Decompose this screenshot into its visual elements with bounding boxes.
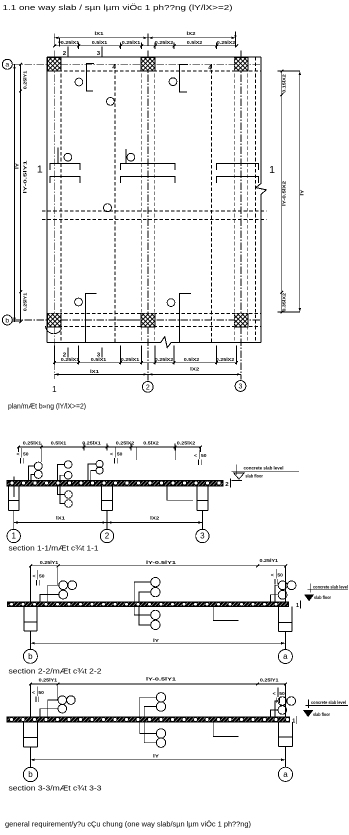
svg-text:lX2: lX2 bbox=[190, 367, 200, 372]
svg-text:lY-0.5lX2: lY-0.5lX2 bbox=[282, 180, 287, 206]
svg-text:0.25lX1: 0.25lX1 bbox=[121, 357, 140, 362]
plan bottom segment dim line bbox=[55, 362, 238, 364]
svg-text:<: < bbox=[110, 451, 113, 456]
svg-text:0.25lX1: 0.25lX1 bbox=[61, 40, 80, 45]
svg-text:general requirement/y?u cÇu ch: general requirement/y?u cÇu chung (one w… bbox=[5, 820, 251, 829]
plan top segment dim line bbox=[55, 45, 238, 47]
svg-text:50: 50 bbox=[277, 572, 283, 577]
svg-text:0.5lX2: 0.5lX2 bbox=[184, 357, 200, 362]
sec11 level note line bbox=[231, 470, 299, 472]
sec33 level note line bbox=[305, 705, 348, 707]
svg-text:lY: lY bbox=[153, 753, 159, 758]
svg-text:a: a bbox=[5, 62, 9, 69]
sec22 slab band bbox=[7, 602, 288, 607]
svg-text:0.25lY1: 0.25lY1 bbox=[40, 560, 59, 565]
column 1a hatched bbox=[48, 58, 62, 72]
svg-text:2: 2 bbox=[105, 532, 110, 541]
plan slab bottom edge with break bbox=[47, 337, 261, 348]
sec11 bar through support 1 bbox=[13, 477, 15, 498]
grid bubble 3 bbox=[235, 381, 246, 392]
svg-text:b: b bbox=[28, 770, 33, 779]
svg-text:2: 2 bbox=[225, 482, 228, 488]
sec33 leader bracket right bbox=[213, 722, 238, 736]
column 2b hatched bbox=[141, 313, 155, 327]
svg-text:0.25lX2: 0.25lX2 bbox=[216, 357, 235, 362]
svg-text:2: 2 bbox=[146, 384, 150, 391]
plan left segment dim line bbox=[20, 64, 22, 321]
svg-text:50: 50 bbox=[38, 690, 44, 695]
svg-text:slab floor: slab floor bbox=[314, 595, 331, 600]
span1 top bar with hooks bbox=[86, 63, 94, 91]
span2 top bar callout circle bbox=[169, 78, 177, 86]
sec22 main bars in slab bbox=[10, 602, 14, 606]
sec22 callout circles right support bbox=[278, 581, 287, 590]
svg-text:<: < bbox=[33, 573, 36, 578]
svg-text:0.25lX2: 0.25lX2 bbox=[155, 357, 174, 362]
column 1b hatched bbox=[48, 313, 62, 327]
column 3a hatched bbox=[234, 58, 248, 72]
svg-text:0.25lX1: 0.25lX1 bbox=[23, 441, 42, 446]
span2 bottom bar with hook bbox=[180, 293, 191, 342]
sec33 midspan callouts below bbox=[156, 729, 165, 738]
hidden line near right break bbox=[254, 57, 256, 342]
axis circle b bbox=[2, 315, 12, 325]
svg-text:lX1: lX1 bbox=[56, 516, 66, 521]
sec11 dim boundary ticks bbox=[40, 444, 42, 451]
sec11 callout circles support2 bbox=[96, 460, 103, 467]
top support bars over grid 1 bbox=[50, 164, 80, 171]
sec22 leader bracket right bbox=[213, 607, 238, 621]
svg-text:0.25lX1: 0.25lX1 bbox=[122, 40, 141, 45]
svg-text:lX2: lX2 bbox=[150, 516, 160, 521]
svg-text:1: 1 bbox=[37, 164, 43, 176]
svg-text:lY: lY bbox=[15, 163, 20, 169]
sec support sec33 b bbox=[23, 722, 25, 747]
svg-text:50: 50 bbox=[279, 691, 285, 696]
svg-text:1.1 one way slab / sµn lµm viÖ: 1.1 one way slab / sµn lµm viÖc 1 ph??ng… bbox=[3, 3, 234, 12]
sec11 callout circles near grid1 bbox=[34, 462, 42, 470]
svg-text:4: 4 bbox=[208, 65, 212, 72]
span1 bottom bar callout circle bbox=[75, 298, 83, 306]
sec33 callout circles left support bbox=[58, 696, 67, 705]
axis a centerline bbox=[12, 63, 261, 65]
svg-text:lX1: lX1 bbox=[90, 369, 100, 374]
sec33 main bars in slab bbox=[10, 718, 14, 722]
span1 bottom bar with hook bbox=[86, 293, 97, 342]
svg-text:<: < bbox=[17, 451, 20, 456]
beam 1 inner face hidden line bbox=[60, 57, 62, 342]
svg-text:1: 1 bbox=[11, 532, 16, 541]
svg-text:plan/mÆt b»ng (lY/lX>=2): plan/mÆt b»ng (lY/lX>=2) bbox=[8, 401, 86, 410]
svg-text:b: b bbox=[5, 317, 9, 324]
sec11 support grid 2 bbox=[101, 486, 103, 511]
sec22 top dim line bbox=[31, 565, 286, 567]
sec33 callout circles right support bbox=[278, 697, 287, 706]
svg-text:0.25lY1: 0.25lY1 bbox=[39, 677, 58, 682]
distribution bar span1 dashed bbox=[114, 64, 116, 342]
beam a inner face hidden line bbox=[47, 70, 261, 72]
svg-text:3: 3 bbox=[239, 384, 243, 391]
svg-text:<: < bbox=[194, 453, 197, 458]
sec22 callout circles left support bbox=[59, 581, 68, 590]
svg-text:a: a bbox=[283, 770, 288, 779]
svg-text:1: 1 bbox=[52, 385, 57, 394]
svg-text:3: 3 bbox=[200, 532, 205, 541]
sec11 extension lines to bar cuts bbox=[40, 447, 42, 462]
svg-text:slab floor: slab floor bbox=[245, 474, 263, 479]
sec11 support grid 1 bbox=[7, 486, 9, 511]
support bar callout circle grid2 bbox=[127, 153, 135, 161]
sec support sec22 b bbox=[23, 607, 25, 632]
svg-text:0.25lX2: 0.25lX2 bbox=[217, 40, 236, 45]
bar bend arc at column 1b bbox=[46, 326, 62, 334]
svg-text:0.25lX2: 0.25lX2 bbox=[116, 441, 135, 446]
plan bottom segment dim extension lines bbox=[78, 346, 80, 365]
span2 top bar with hooks bbox=[179, 64, 188, 92]
svg-text:50: 50 bbox=[201, 453, 207, 458]
svg-text:lY-0.5lY1: lY-0.5lY1 bbox=[22, 160, 27, 194]
svg-text:b: b bbox=[28, 652, 33, 661]
sec22 level note line bbox=[308, 589, 348, 591]
sec33 level triangle bbox=[304, 711, 313, 717]
svg-text:<: < bbox=[271, 572, 274, 577]
sec33 midspan callouts above bbox=[156, 693, 165, 702]
sec11 leader bracket span2 bbox=[167, 486, 193, 500]
svg-text:section 3-3/mÆt c¾t 3-3: section 3-3/mÆt c¾t 3-3 bbox=[9, 783, 102, 792]
svg-text:0.15lX2: 0.15lX2 bbox=[282, 74, 287, 93]
sec22 bottom dim line lY bbox=[30, 642, 285, 644]
svg-text:lY-0.5lY1: lY-0.5lY1 bbox=[146, 676, 177, 681]
plan slab right edge with break bbox=[256, 57, 266, 342]
distribution bar solid segment near beam b bbox=[117, 319, 135, 321]
svg-text:concrete slab level: concrete slab level bbox=[311, 700, 346, 705]
sec22 level triangle bbox=[305, 595, 314, 601]
plan slab outline top edge bbox=[47, 56, 261, 58]
svg-text:concrete slab level: concrete slab level bbox=[244, 466, 284, 471]
top support bars over grid 3 bbox=[217, 164, 259, 171]
svg-text:slab floor: slab floor bbox=[313, 712, 330, 717]
sec11 support grid 3 bbox=[196, 486, 198, 511]
sec33 slab band bbox=[7, 717, 290, 722]
top support bars over grid 2 bbox=[120, 164, 174, 171]
support bar callout circle grid1 bbox=[64, 153, 72, 161]
svg-text:lY: lY bbox=[153, 638, 159, 643]
svg-text:concrete slab level: concrete slab level bbox=[313, 584, 348, 589]
plan bottom overall dim line bbox=[54, 373, 241, 375]
svg-text:lY: lY bbox=[300, 190, 305, 196]
sec11 grid bubble 1 bbox=[7, 529, 20, 542]
beam 3 faces hidden lines bbox=[233, 57, 235, 342]
distribution bar callout circle span1 bbox=[107, 98, 115, 106]
svg-text:0.5lX1: 0.5lX1 bbox=[92, 40, 108, 45]
distribution bar span2 dashed bbox=[211, 64, 213, 342]
grid bubble 2 bbox=[142, 382, 153, 393]
grid axis 3 centerline bbox=[240, 51, 242, 380]
sec support sec22 a bbox=[278, 607, 280, 632]
sec axis bubble sec22 b bbox=[23, 649, 37, 663]
svg-text:lX2: lX2 bbox=[187, 31, 197, 36]
svg-text:50: 50 bbox=[117, 451, 123, 456]
plan left overall dim line lY bbox=[14, 64, 16, 321]
svg-text:50: 50 bbox=[23, 451, 29, 456]
plan top overall dim extension lines bbox=[53, 34, 55, 46]
sec22 midspan callouts below bbox=[151, 610, 160, 619]
sec11 slab band bbox=[7, 480, 223, 486]
svg-text:4: 4 bbox=[112, 64, 116, 71]
plan slab outline left edge bbox=[46, 57, 48, 342]
sec11 level triangle bbox=[234, 473, 245, 479]
sec22 midspan callouts above bbox=[151, 577, 160, 586]
svg-text:0.25lX2: 0.25lX2 bbox=[177, 441, 196, 446]
sec33 bottom dim line lY bbox=[30, 759, 285, 761]
sec11 grid bubble 2 bbox=[100, 529, 113, 542]
svg-text:0.25lY1: 0.25lY1 bbox=[260, 678, 279, 683]
svg-text:a: a bbox=[283, 652, 288, 661]
svg-text:0.5lX1: 0.5lX1 bbox=[91, 357, 107, 362]
svg-text:1: 1 bbox=[269, 164, 275, 176]
svg-text:50: 50 bbox=[39, 573, 45, 578]
callout circle on section line span1 bbox=[104, 204, 112, 212]
axis b centerline bbox=[12, 319, 261, 321]
sec11 callout circles midspan1 below bbox=[65, 491, 73, 499]
svg-text:lY-0.5lY1: lY-0.5lY1 bbox=[146, 560, 177, 565]
svg-text:0.25lX2: 0.25lX2 bbox=[155, 40, 174, 45]
svg-text:0.25lX1: 0.25lX1 bbox=[61, 357, 80, 362]
svg-text:lX1: lX1 bbox=[95, 31, 105, 36]
sec11 grid bubble 3 bbox=[196, 529, 209, 542]
plan right segment dim line bbox=[281, 71, 283, 312]
span1 top bar callout circle bbox=[75, 78, 83, 86]
beam 2 faces hidden lines bbox=[140, 57, 142, 342]
column 3b hatched bbox=[234, 313, 248, 327]
svg-text:0.5lX2: 0.5lX2 bbox=[187, 40, 203, 45]
svg-text:<: < bbox=[32, 690, 35, 695]
span2 bottom bar callout circle bbox=[167, 299, 175, 307]
svg-text:0.25lY1: 0.25lY1 bbox=[260, 558, 279, 563]
svg-text:2: 2 bbox=[63, 51, 66, 57]
sec axis bubble sec33 b bbox=[23, 767, 37, 781]
grid axis 1 centerline bbox=[53, 51, 55, 380]
svg-text:0.25lY1: 0.25lY1 bbox=[22, 70, 27, 89]
svg-text:0.35lX2: 0.35lX2 bbox=[282, 293, 287, 312]
beam b faces hidden lines bbox=[47, 312, 261, 314]
grid axis 2 centerline bbox=[147, 51, 149, 381]
svg-text:section 1-1/mÆt c¾t 1-1: section 1-1/mÆt c¾t 1-1 bbox=[9, 543, 99, 552]
sec support sec33 a bbox=[277, 722, 279, 747]
svg-text:0.25lX1: 0.25lX1 bbox=[82, 441, 101, 446]
plan right overall dim line lY bbox=[299, 71, 301, 312]
plan top overall dim line lX1 lX2 bbox=[54, 37, 235, 39]
sec22 extension lines bbox=[30, 566, 32, 602]
svg-text:<: < bbox=[273, 691, 276, 696]
sec33 extension lines bbox=[30, 684, 32, 717]
svg-text:0.5lX2: 0.5lX2 bbox=[143, 441, 159, 446]
svg-text:0.25lY1: 0.25lY1 bbox=[22, 292, 27, 311]
column 2a hatched bbox=[141, 58, 155, 72]
sec11 bottom dim line bbox=[14, 522, 203, 524]
sec11 callout circles midspan1 above bbox=[64, 461, 72, 469]
sec33 top dim line bbox=[31, 683, 286, 685]
axis circle a bbox=[2, 59, 12, 69]
sec11 distribution bars in slab bbox=[10, 481, 14, 485]
section 1-1 cut dashed lines across plan bbox=[42, 210, 267, 212]
sec11 level short line bbox=[231, 480, 242, 482]
plan top dim boundary ticks bbox=[78, 43, 80, 50]
sec axis bubble sec22 a bbox=[278, 650, 292, 664]
sec11 top dim line bbox=[19, 446, 201, 448]
sec axis bubble sec33 a bbox=[278, 767, 292, 781]
svg-text:0.5lX1: 0.5lX1 bbox=[51, 441, 67, 446]
svg-text:section 2-2/mÆt c¾t 2-2: section 2-2/mÆt c¾t 2-2 bbox=[9, 666, 102, 675]
